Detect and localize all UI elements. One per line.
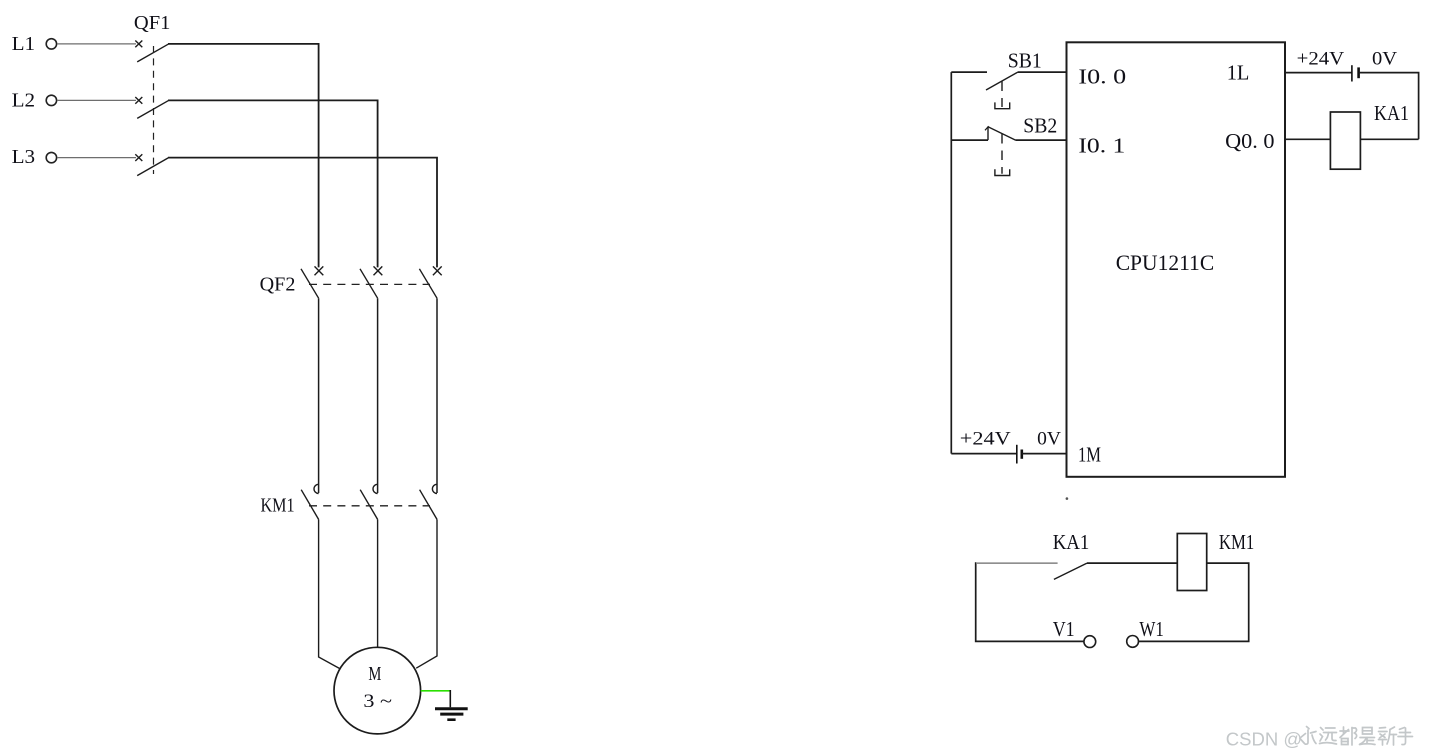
svg-text:I0. 0: I0. 0 bbox=[1078, 65, 1126, 89]
wire L2 to QF2 bbox=[168, 100, 378, 267]
svg-text:KA1: KA1 bbox=[1053, 530, 1090, 554]
svg-text:1L: 1L bbox=[1227, 61, 1250, 85]
wire KM1 coil to right rail bbox=[1139, 563, 1249, 641]
watermark bbox=[1226, 727, 1413, 750]
svg-text:+24V: +24V bbox=[1297, 49, 1345, 70]
wire motor to ground (green) bbox=[421, 690, 451, 692]
stray dot bbox=[1066, 497, 1069, 500]
wire QF2 pole1 to KM1 bbox=[318, 298, 320, 493]
terminal L3 bbox=[12, 146, 57, 168]
shou bbox=[1400, 728, 1405, 730]
svg-text:KM1: KM1 bbox=[261, 494, 295, 516]
wire SB1 to I0.0 bbox=[1018, 71, 1067, 73]
relay coil KA1 bbox=[1330, 112, 1360, 169]
breaker QF1 pole 1 bbox=[135, 41, 168, 62]
battery 24V (left supply) bbox=[1017, 445, 1022, 464]
svg-text:Q0. 0: Q0. 0 bbox=[1225, 129, 1274, 153]
contactor KM1 pole 2 bbox=[360, 484, 377, 519]
svg-text:W1: W1 bbox=[1139, 617, 1164, 641]
svg-text:V1: V1 bbox=[1053, 617, 1075, 641]
wire SB2 to I0.1 bbox=[1016, 139, 1067, 141]
wire KM1 pole1 to motor bbox=[319, 519, 340, 668]
contactor KM1 pole 1 bbox=[301, 484, 318, 519]
svg-text:CSDN @: CSDN @ bbox=[1226, 728, 1302, 749]
wire Q0.0 to KA1 coil bbox=[1285, 138, 1330, 140]
wire QF2 pole3 to KM1 bbox=[436, 298, 438, 493]
breaker QF2 pole 3 bbox=[419, 266, 441, 298]
wire L1 to QF2 bbox=[168, 44, 319, 268]
yong bbox=[1307, 727, 1310, 729]
breaker QF2 pole 1 bbox=[301, 266, 323, 298]
wire QF2 pole2 to KM1 bbox=[377, 298, 379, 493]
wire battery to 1M bbox=[1022, 453, 1067, 455]
svg-text:L1: L1 bbox=[12, 33, 35, 55]
wire KM1 pole2 to motor bbox=[377, 519, 379, 647]
svg-text:L2: L2 bbox=[12, 90, 35, 112]
wire battery to 0V corner bbox=[1359, 73, 1419, 140]
terminal L2 bbox=[12, 90, 57, 112]
terminal W1 bbox=[1127, 617, 1164, 648]
terminal V1 bbox=[1053, 617, 1096, 648]
pushbutton SB1 (NO) bbox=[986, 72, 1018, 108]
wire rail to SB2 bbox=[951, 139, 988, 141]
pushbutton SB2 (NC) bbox=[985, 126, 1016, 175]
svg-text:SB2: SB2 bbox=[1023, 113, 1057, 137]
breaker QF1 pole 2 bbox=[135, 97, 168, 118]
svg-text:CPU1211C: CPU1211C bbox=[1116, 250, 1215, 275]
contactor KM1 pole 3 bbox=[420, 484, 437, 519]
du bbox=[1340, 730, 1349, 732]
wire 1L to battery bbox=[1285, 72, 1352, 74]
wire L1 lead bbox=[57, 43, 136, 45]
wire ground drop bbox=[449, 690, 451, 707]
wire L3 lead bbox=[57, 157, 136, 159]
svg-text:I0. 1: I0. 1 bbox=[1078, 134, 1125, 158]
svg-text:KM1: KM1 bbox=[1219, 530, 1254, 554]
xin bbox=[1380, 727, 1386, 730]
wire L2 lead bbox=[57, 99, 136, 101]
svg-text:0V: 0V bbox=[1372, 49, 1397, 70]
battery 24V (right supply) bbox=[1352, 65, 1359, 81]
wire KM1 pole3 to motor bbox=[416, 519, 437, 668]
wire left rail bbox=[950, 72, 952, 454]
contact KA1 (NO) blade bbox=[1054, 563, 1087, 579]
wire rail to SB1 bbox=[951, 71, 987, 73]
wire L3 to QF2 bbox=[168, 158, 437, 268]
wire KA1 contact to KM1 coil bbox=[1087, 562, 1177, 564]
breaker QF1 pole 3 bbox=[135, 154, 168, 175]
svg-text:3 ~: 3 ~ bbox=[363, 691, 392, 712]
ground bbox=[435, 709, 468, 720]
svg-text:QF1: QF1 bbox=[134, 12, 171, 34]
yuan bbox=[1326, 727, 1336, 729]
svg-text:M: M bbox=[368, 663, 381, 685]
wire KA1 coil to 0V bbox=[1360, 138, 1418, 140]
breaker QF1 linkage bbox=[153, 46, 155, 174]
coil KM1 bbox=[1177, 534, 1206, 591]
PLC U1 CPU1211C box bbox=[1067, 42, 1286, 477]
svg-text:+24V: +24V bbox=[960, 429, 1011, 450]
svg-text:0V: 0V bbox=[1037, 429, 1061, 450]
breaker QF2 pole 2 bbox=[360, 266, 382, 298]
wire control loop top-left (gray) bbox=[977, 562, 1058, 564]
contactor KM1 linkage bbox=[309, 505, 430, 507]
terminal L1 bbox=[12, 33, 57, 55]
svg-text:1M: 1M bbox=[1078, 443, 1101, 467]
wire rail to battery bbox=[951, 453, 1017, 455]
svg-text:QF2: QF2 bbox=[260, 273, 296, 295]
svg-text:L3: L3 bbox=[12, 146, 35, 168]
motor M 3-phase bbox=[334, 647, 421, 734]
svg-text:KA1: KA1 bbox=[1374, 101, 1409, 125]
breaker QF2 linkage bbox=[309, 283, 430, 285]
svg-text:SB1: SB1 bbox=[1008, 49, 1042, 73]
wire control loop left rail bbox=[976, 562, 1084, 641]
shi bbox=[1363, 728, 1373, 735]
